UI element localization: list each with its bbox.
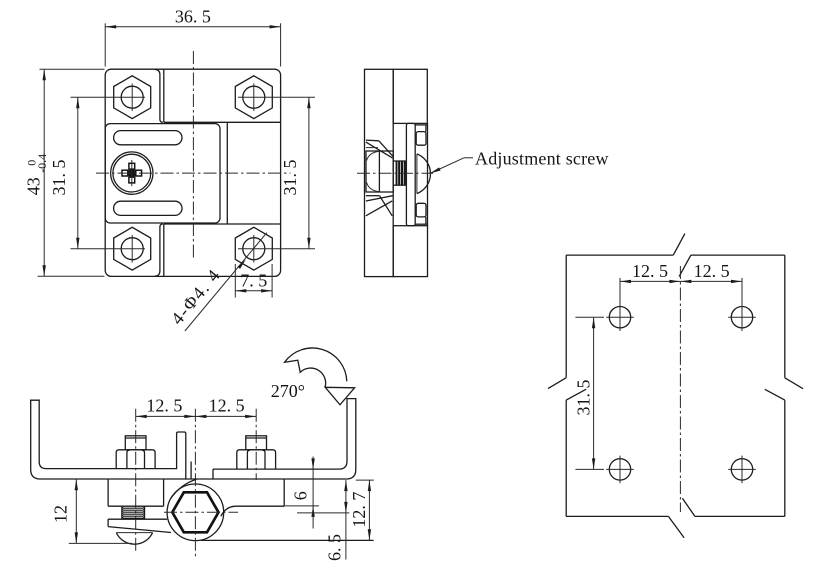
dim 43: dimension line with arrows — [43, 69, 45, 276]
dim 6.5: extension line — [297, 512, 349, 514]
svg-text:12. 5: 12. 5 — [694, 261, 730, 281]
svg-text:-0.4: -0.4 — [35, 154, 49, 173]
svg-text:12: 12 — [50, 505, 70, 523]
svg-text:31. 5: 31. 5 — [280, 160, 300, 196]
bottom view: moving leaf arm right — [283, 479, 285, 506]
front view: adjustment screw inner circle — [113, 154, 151, 192]
right view: mounting hole 1 with crosshair — [609, 307, 630, 328]
front view: right leaf notch side edge — [226, 122, 228, 224]
bottom view: left channel bracket — [31, 400, 186, 479]
front view: adjustment screw outer circle — [111, 152, 153, 194]
side view: clamp bracket right edge — [427, 123, 429, 226]
side view: thread shank edges — [393, 160, 406, 162]
dim 6: extension line — [284, 505, 319, 507]
label 4-phi4.4: leader line to bolt hole — [185, 233, 267, 331]
dim 31.5 left: rotated text — [49, 160, 69, 196]
dim 31.5 left: extension lines / bolt centerlines — [71, 96, 146, 98]
bottom view: right bolt centerline — [255, 409, 257, 480]
bottom view: pivot boss circle — [167, 484, 224, 541]
dim 12: dimension line with arrows — [75, 479, 77, 543]
side view: fixed leaf plate — [365, 69, 394, 276]
right view: plate outline with break gaps — [566, 254, 673, 256]
bottom view: pivot centerline vertical — [194, 409, 196, 557]
right view: mounting hole 2 with crosshair — [731, 307, 752, 328]
right view: top break lines — [673, 234, 685, 256]
bottom view: moving leaf edge between channels — [190, 462, 192, 480]
side view: moving leaf bottom block — [393, 226, 427, 277]
dim 12: rotated text — [50, 505, 70, 523]
bottom view: detent dome — [116, 533, 152, 545]
dim 31.5 (right view): extension lines — [575, 316, 604, 318]
side view: lower washer block — [416, 203, 426, 217]
front view: left leaf top tab right edge — [155, 69, 163, 122]
front view: corner bolt hex nut 4 with hole — [235, 227, 272, 270]
front view: right leaf left edge (top segment) — [163, 69, 165, 122]
dim 12.7: dimension line with arrows — [368, 480, 370, 540]
dim 7.5: dimension line with arrows — [235, 290, 272, 292]
dim 12.5 left (right view): extension line — [619, 278, 621, 305]
front view: notch top edge — [164, 121, 281, 123]
front view: notch bottom edge — [164, 223, 281, 225]
front view: corner bolt hex nut 2 with hole — [235, 76, 272, 119]
front view: left leaf center block — [105, 124, 220, 223]
dim 12.5 left (right view): dimension line with arrows — [620, 280, 680, 282]
front view: phillips recess of adjustment screw — [122, 163, 142, 183]
dim 31.5 right: extension lines / bolt centerlines — [238, 96, 315, 98]
dim 12: extension line — [69, 542, 132, 544]
bottom view: pivot hex (bold) — [172, 492, 218, 532]
side view: center strip (leaf edge) — [406, 123, 415, 225]
svg-text:12. 7: 12. 7 — [349, 492, 369, 528]
svg-text:43: 43 — [23, 177, 43, 195]
side view: washer-to-block connectors — [425, 125, 427, 132]
front view: vertical centerline — [192, 51, 194, 259]
front view: left leaf bottom tab right edge — [155, 224, 163, 276]
dim 31.5 (right view): dimension line with arrows — [593, 317, 595, 469]
dim 43: extension lines — [40, 68, 105, 70]
dim 36.5: dimension line with arrows — [105, 26, 280, 28]
dim 12.5 right (right view): dimension line with arrows — [680, 280, 742, 282]
label 270 degrees: rotation arrow — [285, 348, 355, 405]
svg-text:6. 5: 6. 5 — [324, 534, 344, 561]
dim 12.5 right (bottom view): dimension line with arrows — [195, 415, 256, 417]
svg-text:Adjustment screw: Adjustment screw — [475, 149, 609, 169]
right view: vertical centerline — [679, 266, 681, 512]
side view: lower spring washer section — [366, 195, 380, 197]
right view: mounting hole 4 with crosshair — [731, 459, 752, 480]
side view: upper washer block — [416, 132, 426, 146]
right view: left break lines — [548, 378, 566, 389]
dim 43 0/-0.4: rotated text — [23, 154, 49, 195]
svg-text:36. 5: 36. 5 — [175, 6, 211, 26]
front view: corner bolt hex nut 3 with hole — [114, 227, 151, 270]
bottom view: screw thread coil — [122, 507, 145, 519]
front view: corner bolt hex nut 1 with hole — [114, 76, 151, 119]
dim 36.5: extension lines — [104, 23, 106, 66]
side view: adjustment screw dome head — [417, 154, 431, 194]
svg-text:12. 5: 12. 5 — [632, 261, 668, 281]
dim 31.5 right: rotated text — [280, 160, 300, 196]
side view: screw thread block — [396, 161, 406, 185]
label 4-phi4.4: rotated text — [167, 264, 225, 328]
dim 6.5: rotated text — [324, 534, 344, 561]
svg-text:12. 5: 12. 5 — [209, 395, 245, 415]
side view: moving leaf top block — [393, 69, 427, 123]
side view: lock nut body — [366, 151, 393, 192]
bottom view: clamp block lower — [108, 518, 167, 520]
svg-text:31. 5: 31. 5 — [573, 380, 593, 416]
dim 6: dimension line with outside arrows — [312, 457, 314, 529]
right view: right break lines — [785, 378, 803, 389]
label adjustment screw: leader line — [430, 158, 464, 174]
svg-text:31. 5: 31. 5 — [49, 160, 69, 196]
side view: screw axis centerline — [357, 172, 433, 174]
dim 12.5 right (right view): extension line — [741, 278, 743, 305]
dim 7.5: extension lines — [234, 264, 236, 298]
side view: upper spring washer section — [366, 139, 379, 142]
right view: mounting hole 3 with crosshair — [609, 459, 630, 480]
bottom view: left leaf fillet into pivot boss — [171, 479, 197, 498]
dim 6.5: dimension line with arrows — [345, 480, 347, 559]
dim 12.5 left (bottom view): dimension line with arrows — [136, 415, 196, 417]
right view: bottom break lines — [668, 516, 684, 537]
dim 31.5 left: dimension line with arrows — [77, 97, 79, 249]
svg-text:7. 5: 7. 5 — [240, 270, 267, 290]
front view: top slot in center block — [114, 131, 182, 145]
dim 31.5 right: dimension line with arrows — [308, 97, 310, 249]
side view: nut chamfer arcs — [367, 151, 380, 160]
svg-text:6: 6 — [291, 491, 311, 500]
bottom view: clamp block upper — [107, 479, 109, 506]
front view: screw vertical centerline — [131, 160, 133, 186]
bottom view: right bolt with square head and nut — [246, 436, 267, 450]
bottom view: left bolt centerline — [135, 409, 137, 554]
svg-text:12. 5: 12. 5 — [146, 395, 182, 415]
bottom view: left bolt with square head and nut — [125, 436, 146, 450]
bottom view: right channel bracket — [186, 399, 356, 479]
front view: right leaf left edge (bottom segment) — [163, 224, 165, 276]
front view: hinge outer plate (right leaf) outline — [105, 69, 280, 276]
front view: horizontal centerline — [96, 172, 291, 174]
dim 12.7: extension lines — [356, 479, 374, 481]
dim 12.7: rotated text — [349, 492, 369, 528]
dim 6: rotated text — [291, 491, 311, 500]
svg-text:270°: 270° — [271, 381, 305, 401]
dim 31.5 (right view): rotated text — [573, 380, 593, 416]
bottom view: pivot centerline horizontal — [164, 511, 238, 513]
front view: bottom slot in center block — [114, 201, 182, 215]
